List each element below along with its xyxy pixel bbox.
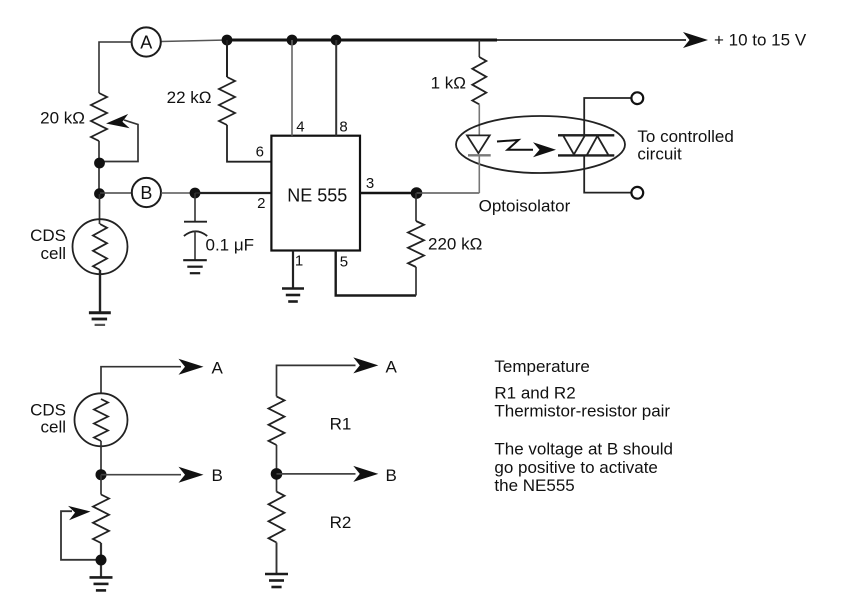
svg-text:CDS: CDS [30,226,66,245]
svg-text:1 kΩ: 1 kΩ [431,74,466,93]
svg-text:circuit: circuit [637,145,682,164]
svg-text:B: B [212,466,223,485]
svg-text:cell: cell [40,244,66,263]
svg-text:To controlled: To controlled [637,127,733,146]
svg-text:NE 555: NE 555 [287,186,347,206]
svg-text:Temperature: Temperature [494,357,589,376]
svg-text:the NE555: the NE555 [494,476,574,495]
svg-text:Optoisolator: Optoisolator [479,197,571,216]
svg-text:4: 4 [296,119,304,136]
svg-text:R2: R2 [330,513,352,532]
svg-text:+ 10 to 15 V: + 10 to 15 V [714,31,807,50]
svg-text:2: 2 [257,195,265,212]
svg-text:8: 8 [339,119,347,136]
svg-text:3: 3 [366,175,374,192]
svg-text:A: A [386,358,398,377]
svg-text:Thermistor-resistor pair: Thermistor-resistor pair [494,402,670,421]
svg-text:The voltage at B should: The voltage at B should [494,440,673,459]
svg-text:B: B [386,466,397,485]
svg-text:go positive to activate: go positive to activate [494,458,657,477]
svg-text:22 kΩ: 22 kΩ [167,88,212,107]
svg-text:R1 and R2: R1 and R2 [494,384,575,403]
svg-text:1: 1 [295,253,303,270]
svg-text:220 kΩ: 220 kΩ [428,235,482,254]
svg-text:6: 6 [256,144,264,161]
svg-text:20 kΩ: 20 kΩ [40,109,85,128]
svg-text:A: A [140,33,152,53]
svg-text:B: B [140,183,152,203]
svg-text:R1: R1 [330,414,352,433]
svg-text:0.1 μF: 0.1 μF [206,236,255,255]
svg-text:A: A [212,359,224,378]
svg-text:cell: cell [40,418,66,437]
svg-text:5: 5 [340,254,348,271]
